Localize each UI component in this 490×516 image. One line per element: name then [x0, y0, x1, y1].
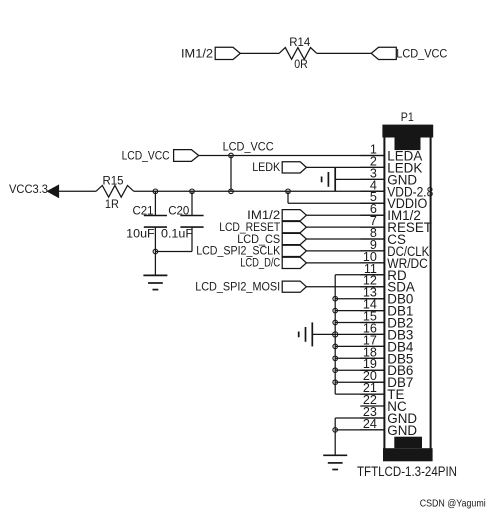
svg-text:LEDK: LEDK	[252, 160, 280, 174]
pin 18 (DB5): stub, number, name	[360, 345, 413, 366]
pin 9 (DC/CLK): stub, number, name	[360, 238, 429, 259]
wire pin 11 to bus	[335, 274, 384, 276]
pin 3 (GND): stub, number, name	[360, 166, 417, 187]
wire pin 21	[335, 393, 384, 395]
pin 10 (WR/DC): stub, number, name	[360, 250, 428, 271]
resistor R15	[96, 185, 134, 197]
pin 21 (TE): stub, number, name	[360, 381, 404, 402]
svg-text:P1: P1	[401, 110, 414, 124]
wire VDD rail to pin 4	[134, 190, 385, 192]
wire pin 15	[335, 322, 384, 324]
pin 17 (DB4): stub, number, name	[360, 333, 414, 354]
svg-text:1R: 1R	[105, 197, 119, 211]
svg-text:LCD_SPI2_MOSI: LCD_SPI2_MOSI	[195, 280, 280, 294]
pin 8 (CS): stub, number, name	[360, 226, 406, 247]
net flag LCD_D/C	[240, 256, 306, 270]
capacitor C20	[180, 191, 203, 251]
wire	[59, 190, 96, 192]
pin 24 (GND): stub, number, name	[360, 417, 417, 438]
junction	[333, 428, 338, 433]
wire pin 19	[335, 369, 384, 371]
net flag LCD_VCC (pin 1)	[122, 149, 199, 163]
svg-text:0.1uF: 0.1uF	[161, 227, 193, 241]
wire to pin 6	[306, 214, 384, 216]
wire	[317, 52, 371, 54]
svg-text:R15: R15	[103, 173, 124, 187]
junction	[333, 368, 338, 373]
svg-text:GND: GND	[387, 423, 417, 438]
junction	[153, 189, 158, 194]
wire to pin 12	[306, 286, 384, 288]
junction	[333, 320, 338, 325]
svg-text:IM1/2: IM1/2	[181, 47, 213, 61]
ground (data bus)	[299, 322, 313, 346]
wire down to ground	[154, 252, 156, 276]
ground (pin 3)	[322, 167, 336, 191]
ground (decoupling caps)	[143, 275, 167, 289]
resistor R14	[279, 48, 317, 60]
capacitor C21	[144, 191, 167, 251]
connector P1 body	[382, 125, 433, 462]
ground (bottom)	[323, 455, 347, 469]
junction	[333, 308, 338, 313]
junction	[286, 189, 291, 194]
junction	[229, 189, 234, 194]
pin 23 (GND): stub, number, name	[360, 405, 417, 426]
net flag IM1/2	[247, 208, 306, 222]
pin 4 (VDD-2.8): stub, number, name	[360, 178, 433, 199]
svg-text:0R: 0R	[294, 57, 308, 71]
net flag LCD_CS	[237, 232, 306, 246]
wire pin 3 stub to ground	[335, 178, 384, 180]
wire pin 18	[335, 357, 384, 359]
pin 20 (DB7): stub, number, name	[360, 369, 413, 390]
pin 6 (IM1/2): stub, number, name	[360, 202, 421, 223]
junction	[333, 380, 338, 385]
net flag LCD_SPI2_SCLK	[196, 244, 306, 258]
net flag IM1/2 (top)	[181, 47, 240, 61]
svg-text:LCD_D/C: LCD_D/C	[240, 256, 280, 270]
wire pin 17	[335, 345, 384, 347]
svg-text:LCD_VCC: LCD_VCC	[122, 149, 170, 163]
power port VCC3.3	[9, 182, 59, 197]
junction	[333, 296, 338, 301]
svg-text:10uF: 10uF	[126, 227, 155, 241]
svg-text:LCD_VCC: LCD_VCC	[396, 47, 447, 61]
pin 14 (DB1): stub, number, name	[360, 298, 413, 319]
wire pin 20	[335, 381, 384, 383]
wire to pin 1	[199, 155, 385, 157]
wire pin 24	[335, 429, 384, 431]
wire down to ground	[334, 418, 336, 455]
wire bus to ground	[312, 333, 335, 335]
svg-text:C20: C20	[168, 204, 189, 218]
junction	[333, 356, 338, 361]
junction	[229, 153, 234, 158]
net flag LCD_VCC (top right)	[371, 47, 447, 61]
pin 7 (RESET): stub, number, name	[360, 214, 432, 235]
svg-text:LCD_VCC: LCD_VCC	[223, 140, 274, 154]
svg-text:C21: C21	[133, 204, 154, 218]
wire to pin 10	[306, 262, 384, 264]
pin 12 (SDA): stub, number, name	[360, 274, 415, 295]
pin 13 (DB0): stub, number, name	[360, 286, 413, 307]
net flag LEDK	[252, 160, 306, 174]
wire C20 bottom to C21 bottom	[155, 251, 192, 253]
pin 1 (LEDA): stub, number, name	[360, 143, 422, 164]
wire rail drop to pin 5	[287, 191, 289, 203]
wire to pin 9	[306, 250, 384, 252]
wire to pin 8	[306, 238, 384, 240]
svg-text:TFTLCD-1.3-24PIN: TFTLCD-1.3-24PIN	[357, 464, 457, 480]
wire pin 16	[335, 333, 384, 335]
bus vertical wire	[334, 275, 336, 394]
wire pin 13	[335, 298, 384, 300]
pin 11 (RD): stub, number, name	[360, 262, 407, 283]
junction	[190, 189, 195, 194]
svg-text:VCC3.3: VCC3.3	[9, 182, 48, 196]
wire from LCD_VCC down to rail	[230, 156, 232, 192]
net flag LCD_RESET	[219, 220, 306, 234]
junction	[333, 344, 338, 349]
svg-text:R14: R14	[289, 35, 310, 49]
pin 19 (DB6): stub, number, name	[360, 357, 413, 378]
wire pin 14	[335, 310, 384, 312]
wire pin 23	[335, 417, 384, 419]
wire to pin 7	[306, 226, 384, 228]
pin 2 (LEDK): stub, number, name	[360, 154, 422, 175]
pin 22 (NC): stub, number, name	[360, 393, 407, 414]
net flag LCD_SPI2_MOSI	[195, 280, 306, 294]
pin 15 (DB2): stub, number, name	[360, 310, 413, 331]
junction (ground tap)	[333, 332, 338, 337]
pin 5 (VDDIO): stub, number, name	[360, 190, 427, 211]
svg-text:CSDN @Yagumi: CSDN @Yagumi	[420, 498, 486, 509]
junction	[153, 249, 158, 254]
wire	[240, 52, 279, 54]
pin 16 (DB3): stub, number, name	[360, 321, 413, 342]
wire to pin 2	[306, 166, 384, 168]
svg-text:24: 24	[363, 417, 377, 431]
